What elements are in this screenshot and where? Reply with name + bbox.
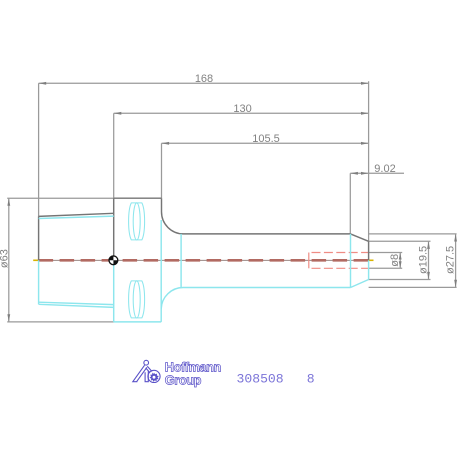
- flange left face: [113, 198, 115, 260]
- flange right face and fillet: [162, 198, 184, 234]
- nose rear face: [350, 234, 352, 288]
- dimension 130 arrows: [114, 112, 369, 115]
- flange bottom edge: [114, 321, 162, 323]
- svg-text:168: 168: [195, 73, 213, 85]
- taper left face bottom: [38, 260, 40, 304]
- svg-text:8: 8: [307, 371, 315, 386]
- drive slot top outer: [129, 203, 145, 240]
- nose front face: [368, 241, 370, 260]
- fillet arc bottom: [161, 287, 183, 308]
- Hoffmann Group logo mark: [133, 360, 160, 382]
- flange left face bottom: [113, 260, 115, 322]
- dimension dia19.5 arrows: [427, 241, 430, 279]
- centerline thin underlay: [34, 259, 371, 261]
- flange top edge: [114, 197, 162, 199]
- dimension dia8 line: [399, 253, 401, 269]
- dimension 9.02 line: [350, 172, 404, 174]
- dimension dia27.5 line: [455, 234, 457, 288]
- dimension 168 line: [39, 82, 369, 84]
- center of gravity symbol: [109, 256, 118, 265]
- body outline lower half (cyan): [39, 203, 369, 322]
- centerline yellow tip left: [33, 259, 38, 261]
- svg-text:ø63: ø63: [0, 249, 10, 268]
- dimension dia27.5 arrows: [454, 234, 457, 288]
- svg-text:105.5: 105.5: [252, 133, 280, 145]
- nose front face bottom: [368, 260, 370, 279]
- dimension 105.5 line: [162, 142, 369, 144]
- dimension dia8 arrows: [399, 253, 402, 269]
- svg-text:ø27.5: ø27.5: [445, 246, 457, 274]
- dimension dia63 line: [8, 198, 10, 322]
- svg-text:Group: Group: [165, 372, 202, 387]
- dimension dia63 arrows: [7, 198, 10, 322]
- taper left face: [38, 216, 40, 260]
- centerline yellow tip right: [368, 259, 374, 261]
- dimension dia19.5 line: [428, 241, 430, 279]
- nose chamfer bottom: [351, 280, 369, 288]
- flange right face full: [160, 220, 162, 322]
- drive slot bottom inner: [133, 281, 140, 318]
- extension lines: [7, 81, 456, 322]
- taper inner wall top: [39, 216, 114, 218]
- inner cavity face: [180, 234, 182, 288]
- taper top edge: [39, 213, 114, 216]
- shaft top edge: [184, 233, 351, 235]
- dimension 105.5 arrows: [162, 142, 369, 145]
- taper bottom outer edge: [39, 304, 114, 307]
- centerline red dashes: [39, 259, 369, 262]
- nose chamfer top: [351, 234, 369, 241]
- shaft bottom edge: [184, 287, 351, 289]
- logo gear wheel: [150, 373, 159, 382]
- svg-text:308508: 308508: [237, 371, 284, 386]
- bore dia8 dashed box top: [309, 252, 369, 254]
- svg-text:ø8: ø8: [389, 254, 401, 267]
- svg-text:9.02: 9.02: [374, 163, 395, 175]
- dimension 9.02 arrows: [350, 172, 368, 175]
- bore dia8 box left edge: [308, 253, 310, 269]
- dimension 168 arrows: [39, 82, 369, 85]
- svg-text:130: 130: [233, 103, 251, 115]
- drive slot bottom outer: [129, 281, 145, 318]
- dimension 130 line: [114, 112, 369, 114]
- taper inner wall bottom: [39, 302, 114, 304]
- drive slot top inner: [133, 203, 140, 240]
- svg-text:ø19.5: ø19.5: [417, 246, 429, 274]
- body outline upper half (black): [39, 198, 369, 260]
- bore dia8 dashed box bottom: [309, 267, 369, 269]
